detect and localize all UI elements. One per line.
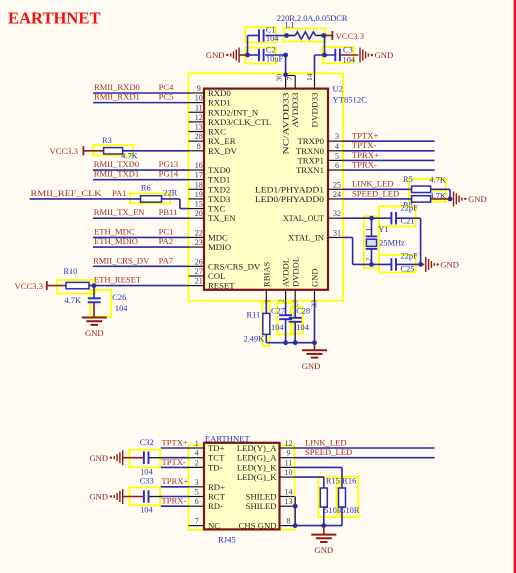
svg-text:LED0/PHYADD0: LED0/PHYADD0 <box>255 194 325 204</box>
svg-text:32: 32 <box>333 209 341 218</box>
svg-text:TRXN0: TRXN0 <box>296 146 325 156</box>
svg-text:TRXP1: TRXP1 <box>297 155 324 165</box>
svg-text:PG13: PG13 <box>159 159 179 169</box>
svg-text:25MHz: 25MHz <box>379 239 405 248</box>
svg-text:8: 8 <box>287 517 291 526</box>
svg-text:TXD2: TXD2 <box>208 184 230 194</box>
svg-text:PC4: PC4 <box>159 82 175 92</box>
svg-text:C2: C2 <box>266 45 276 54</box>
svg-text:RMII_RXD1: RMII_RXD1 <box>94 92 140 102</box>
svg-text:RXD0: RXD0 <box>208 88 231 98</box>
svg-text:9: 9 <box>197 84 201 93</box>
svg-text:C3: C3 <box>343 46 353 55</box>
svg-text:XTAL_OUT: XTAL_OUT <box>283 213 325 223</box>
svg-text:C21: C21 <box>401 217 415 226</box>
svg-text:TXD3: TXD3 <box>208 194 230 204</box>
svg-text:GND: GND <box>85 328 104 338</box>
svg-text:GND: GND <box>375 50 394 60</box>
svg-text:RMII_TX_EN: RMII_TX_EN <box>94 207 145 217</box>
svg-text:4: 4 <box>335 142 339 151</box>
svg-text:RXC: RXC <box>208 127 226 137</box>
svg-text:SHILED: SHILED <box>246 501 277 511</box>
svg-text:TPTX+: TPTX+ <box>162 437 188 447</box>
svg-text:LED(Y)_K: LED(Y)_K <box>237 462 277 472</box>
svg-text:RMII_TXD1: RMII_TXD1 <box>94 169 139 179</box>
svg-text:TCT: TCT <box>208 453 225 463</box>
svg-text:25: 25 <box>333 180 341 189</box>
svg-text:28: 28 <box>195 132 203 141</box>
svg-text:5: 5 <box>195 488 199 497</box>
svg-text:20: 20 <box>195 209 203 218</box>
svg-text:TD+: TD+ <box>208 443 225 453</box>
svg-text:RXD3/CLK_CTL: RXD3/CLK_CTL <box>208 117 271 127</box>
svg-text:TD-: TD- <box>208 462 223 472</box>
svg-text:GND: GND <box>440 260 459 270</box>
svg-text:PC1: PC1 <box>159 226 174 236</box>
svg-text:LED(G)_K: LED(G)_K <box>237 472 277 482</box>
svg-text:RXD2/INT_N: RXD2/INT_N <box>208 107 259 117</box>
svg-text:PA7: PA7 <box>159 255 174 265</box>
svg-text:MDIO: MDIO <box>208 242 231 252</box>
svg-text:21: 21 <box>195 277 203 286</box>
svg-text:7: 7 <box>195 517 199 526</box>
svg-text:AVDD33: AVDD33 <box>290 93 300 128</box>
svg-text:AVDDL: AVDDL <box>281 258 291 287</box>
svg-text:510R: 510R <box>324 506 343 515</box>
svg-text:PC5: PC5 <box>159 92 174 102</box>
svg-text:4: 4 <box>195 449 199 458</box>
svg-text:1: 1 <box>364 228 373 232</box>
svg-text:16: 16 <box>195 161 203 170</box>
svg-text:12: 12 <box>195 113 203 122</box>
svg-text:510R: 510R <box>341 506 360 515</box>
svg-text:27: 27 <box>195 267 203 276</box>
svg-text:C26: C26 <box>112 293 126 302</box>
svg-text:RMII_TXD0: RMII_TXD0 <box>94 159 139 169</box>
svg-text:L1: L1 <box>285 21 294 30</box>
svg-text:LED(Y)_A: LED(Y)_A <box>237 443 277 453</box>
svg-text:TPTX-: TPTX- <box>162 457 186 467</box>
svg-text:10uF: 10uF <box>266 54 284 63</box>
svg-text:RMII_CRS_DV: RMII_CRS_DV <box>93 255 150 265</box>
svg-text:RXD1: RXD1 <box>208 98 231 108</box>
svg-text:TPRX+: TPRX+ <box>352 150 379 160</box>
svg-text:LED(G)_A: LED(G)_A <box>237 453 277 463</box>
svg-text:RMII_REF_CLK: RMII_REF_CLK <box>31 188 103 198</box>
svg-text:31: 31 <box>333 228 341 237</box>
svg-text:LED1/PHYADD1: LED1/PHYADD1 <box>255 184 324 194</box>
svg-text:RD+: RD+ <box>208 482 225 492</box>
svg-text:2: 2 <box>195 458 199 467</box>
svg-text:15: 15 <box>195 200 203 209</box>
svg-text:14: 14 <box>305 73 314 81</box>
svg-text:R15: R15 <box>326 476 340 485</box>
svg-text:TPTX+: TPTX+ <box>352 131 378 141</box>
svg-text:17: 17 <box>195 171 203 180</box>
svg-text:CRS/CRS_DV: CRS/CRS_DV <box>208 261 261 271</box>
svg-text:DVDDL: DVDDL <box>290 257 300 287</box>
svg-text:GND: GND <box>314 545 333 555</box>
svg-text:22: 22 <box>195 228 203 237</box>
svg-text:3: 3 <box>335 132 339 141</box>
svg-text:EARTHNET: EARTHNET <box>205 433 251 443</box>
svg-text:PG14: PG14 <box>159 169 179 179</box>
svg-text:RCT: RCT <box>208 492 226 502</box>
svg-text:26: 26 <box>195 257 203 266</box>
svg-text:6: 6 <box>195 497 199 506</box>
svg-text:RD-: RD- <box>208 501 223 511</box>
svg-text:10: 10 <box>285 468 293 477</box>
svg-text:TXC: TXC <box>208 204 226 214</box>
svg-text:ETH_RESET: ETH_RESET <box>94 275 142 285</box>
svg-text:R16: R16 <box>342 476 356 485</box>
svg-text:MDC: MDC <box>208 232 228 242</box>
svg-text:XTAL_IN: XTAL_IN <box>288 232 325 242</box>
svg-text:GND: GND <box>310 268 320 287</box>
svg-text:GND: GND <box>302 361 321 371</box>
svg-text:C33: C33 <box>140 477 154 486</box>
svg-text:R10: R10 <box>63 267 77 276</box>
svg-text:30: 30 <box>275 74 284 82</box>
svg-text:8: 8 <box>197 142 201 151</box>
svg-text:4.7K: 4.7K <box>429 175 446 184</box>
svg-text:VCC3.3: VCC3.3 <box>50 146 78 156</box>
svg-text:3: 3 <box>195 478 199 487</box>
svg-text:TPRX-: TPRX- <box>352 159 377 169</box>
svg-text:22pF: 22pF <box>401 204 419 213</box>
svg-text:LINK_LED: LINK_LED <box>352 179 394 189</box>
svg-text:104: 104 <box>271 323 284 332</box>
svg-text:C27: C27 <box>271 307 285 316</box>
svg-text:TX_EN: TX_EN <box>208 213 236 223</box>
svg-text:Y1: Y1 <box>378 225 388 234</box>
svg-text:14: 14 <box>285 488 293 497</box>
svg-text:22pF: 22pF <box>401 251 419 260</box>
svg-text:SPEED_LED: SPEED_LED <box>305 447 352 457</box>
svg-text:104: 104 <box>115 304 128 313</box>
svg-text:PA2: PA2 <box>159 236 174 246</box>
svg-text:LINK_LED: LINK_LED <box>305 437 347 447</box>
svg-text:TPRX-: TPRX- <box>162 496 187 506</box>
svg-text:104: 104 <box>140 467 153 476</box>
svg-text:104: 104 <box>343 55 356 64</box>
svg-text:24: 24 <box>333 190 341 199</box>
svg-text:SPEED_LED: SPEED_LED <box>352 188 399 198</box>
svg-text:104: 104 <box>140 506 153 515</box>
svg-text:5: 5 <box>335 151 339 160</box>
svg-text:U2: U2 <box>333 84 344 94</box>
svg-text:13: 13 <box>195 123 203 132</box>
svg-text:CHS GND: CHS GND <box>239 521 277 531</box>
svg-text:10: 10 <box>195 94 203 103</box>
svg-text:13: 13 <box>285 497 293 506</box>
svg-text:11: 11 <box>195 103 203 112</box>
svg-text:RX_DV: RX_DV <box>208 146 238 156</box>
svg-text:104: 104 <box>266 34 279 43</box>
svg-text:RBIAS: RBIAS <box>261 261 271 287</box>
svg-text:RESET: RESET <box>208 281 235 291</box>
svg-text:1: 1 <box>195 439 199 448</box>
svg-text:R6: R6 <box>141 184 151 193</box>
svg-text:R11: R11 <box>247 311 261 320</box>
svg-text:C25: C25 <box>401 265 415 274</box>
svg-text:R5: R5 <box>403 175 413 184</box>
svg-text:C32: C32 <box>140 438 154 447</box>
svg-text:TPTX-: TPTX- <box>352 140 376 150</box>
svg-text:22R: 22R <box>163 188 177 197</box>
svg-text:GND: GND <box>89 453 108 463</box>
svg-text:NC/AVDD33: NC/AVDD33 <box>281 93 291 155</box>
svg-text:RJ45: RJ45 <box>218 534 236 544</box>
svg-text:11: 11 <box>285 458 293 467</box>
svg-text:104: 104 <box>296 323 309 332</box>
svg-text:18: 18 <box>195 180 203 189</box>
svg-text:TXD0: TXD0 <box>208 165 231 175</box>
svg-text:C28: C28 <box>296 307 310 316</box>
svg-text:ETH_MDC: ETH_MDC <box>94 226 135 236</box>
svg-text:VCC3.3: VCC3.3 <box>336 31 364 41</box>
svg-text:19: 19 <box>195 190 203 199</box>
svg-text:9: 9 <box>287 449 291 458</box>
svg-text:GND: GND <box>468 194 487 204</box>
svg-text:VCC3.3: VCC3.3 <box>15 281 43 291</box>
svg-text:R3: R3 <box>102 136 112 145</box>
svg-text:7: 7 <box>285 77 294 81</box>
svg-text:6: 6 <box>335 161 339 170</box>
svg-text:COL: COL <box>208 271 225 281</box>
svg-text:TRXN1: TRXN1 <box>296 165 324 175</box>
svg-text:2.49K: 2.49K <box>244 335 265 344</box>
svg-text:GND: GND <box>206 50 225 60</box>
svg-text:ETH_MDIO: ETH_MDIO <box>94 236 138 246</box>
svg-text:PB11: PB11 <box>159 207 178 217</box>
svg-text:PA1: PA1 <box>112 188 127 198</box>
svg-text:DVDD33: DVDD33 <box>309 93 319 128</box>
svg-text:TXD1: TXD1 <box>208 175 230 185</box>
svg-text:TPRX+: TPRX+ <box>162 476 189 486</box>
svg-text:NC: NC <box>208 521 220 531</box>
svg-text:RMII_RXD0: RMII_RXD0 <box>94 82 140 92</box>
svg-text:23: 23 <box>195 238 203 247</box>
svg-text:YT8512C: YT8512C <box>333 94 368 104</box>
svg-text:12: 12 <box>285 439 293 448</box>
svg-text:TRXP0: TRXP0 <box>297 136 324 146</box>
svg-text:GND: GND <box>89 492 108 502</box>
svg-text:4.7K: 4.7K <box>65 296 82 305</box>
svg-text:EARTHNET: EARTHNET <box>8 9 101 28</box>
svg-text:RX_ER: RX_ER <box>208 136 236 146</box>
svg-text:2: 2 <box>364 258 373 262</box>
svg-text:SHILED: SHILED <box>246 492 277 502</box>
